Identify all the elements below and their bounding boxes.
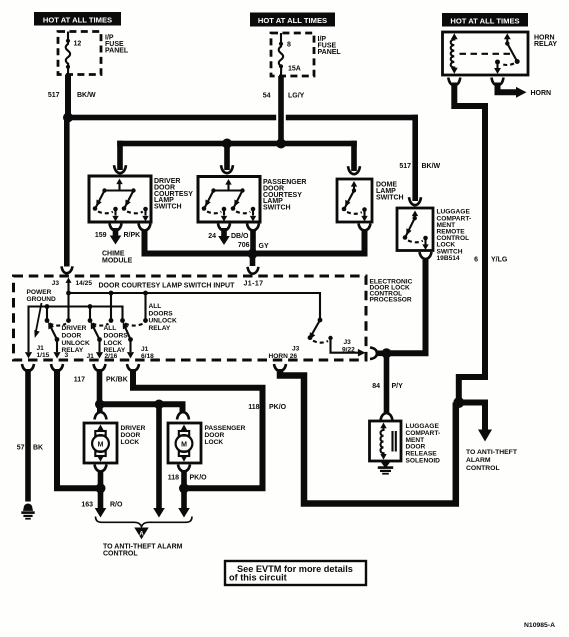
svg-text:M: M — [98, 442, 104, 449]
coil arrows — [451, 33, 458, 39]
node: anti-theft / horn junction — [453, 397, 464, 408]
svg-text:8: 8 — [287, 41, 291, 48]
relay K2 contacts (all doors lock) — [88, 318, 93, 323]
connector at dome lamp switch input — [348, 166, 360, 174]
svg-text:54: 54 — [263, 92, 271, 99]
driver courtesy switch internals — [93, 179, 149, 222]
label DOME LAMP SWITCH — [376, 181, 404, 201]
node: 517 bus junction — [63, 113, 73, 123]
svg-text:DOOR COURTESY LAMP SWITCH INPU: DOOR COURTESY LAMP SWITCH INPUT — [99, 283, 236, 290]
svg-text:24: 24 — [208, 233, 216, 240]
node: driver lock bottom junction — [96, 483, 106, 493]
pin arrows at bottom edge — [25, 352, 32, 358]
label PASSENGER DOOR COURTESY LAMP SWITCH — [263, 179, 306, 212]
label I/P FUSE PANEL (middle) — [318, 36, 342, 56]
wire 517 continues down to processor — [64, 118, 70, 267]
svg-text:J3: J3 — [344, 339, 352, 346]
wire 118 PK/O: down, right, down, left to passenger lock bottom — [133, 369, 263, 488]
svg-text:J1: J1 — [141, 346, 149, 353]
wire 57 BK to ground — [25, 369, 31, 502]
svg-text:517: 517 — [48, 92, 60, 99]
svg-text:ALARM: ALARM — [466, 457, 491, 464]
connector below pin J1 6/18 — [127, 364, 139, 371]
wire pin 3 down and right to driver lock bottom — [57, 369, 97, 488]
connector above solenoid — [381, 413, 393, 421]
svg-text:J1: J1 — [37, 345, 45, 352]
connector below horn relay (horn side) — [492, 78, 504, 86]
power tag HOT AT ALL TIMES (middle) — [250, 13, 335, 27]
relay K1 blade and pin 3 — [55, 337, 60, 342]
label POWER GROUND — [27, 289, 57, 303]
wire bus A corner down to luggage remote switch — [412, 115, 418, 201]
svg-text:PK/O: PK/O — [269, 404, 287, 411]
svg-text:SWITCH: SWITCH — [376, 195, 404, 202]
svg-text:R/PK: R/PK — [124, 232, 141, 239]
svg-text:84: 84 — [372, 383, 380, 390]
wire 163 R/O arrow to anti-theft — [98, 488, 104, 508]
relay K1 contacts (driver door unlock) — [45, 318, 50, 323]
connector at processor J3 14/25 input — [62, 266, 73, 273]
svg-text:J3: J3 — [292, 345, 300, 352]
svg-text:J1: J1 — [87, 353, 95, 360]
fuse 12 — [66, 32, 82, 75]
connector below dome lamp switch — [359, 224, 371, 231]
power tag HOT AT ALL TIMES (right) — [442, 13, 528, 27]
luggage compartment door release solenoid box — [370, 421, 402, 461]
svg-text:J1-17: J1-17 — [244, 281, 264, 288]
svg-text:DOORS: DOORS — [104, 333, 129, 340]
svg-text:CONTROL: CONTROL — [103, 551, 138, 558]
svg-text:R/O: R/O — [110, 501, 123, 508]
svg-text:706: 706 — [238, 242, 250, 249]
node: solenoid feed junction — [382, 348, 392, 358]
label ELECTRONIC DOOR LOCK CONTROL PROCESSOR — [370, 279, 413, 304]
connector below pin J1 1/15 — [22, 364, 34, 371]
wire driver switch to courtesy output bus — [145, 230, 365, 254]
connector at J3 9/22 output (right edge) — [370, 348, 377, 360]
relay K2 blade and pin 2/16 — [97, 337, 102, 342]
connector above passenger door lock — [177, 412, 189, 420]
svg-text:HOT AT ALL TIMES: HOT AT ALL TIMES — [43, 15, 112, 24]
svg-text:DB/O: DB/O — [231, 233, 249, 240]
svg-text:DRIVER: DRIVER — [62, 325, 87, 332]
wire to anti-theft arrow — [459, 403, 485, 431]
dome lamp switch box — [337, 179, 372, 222]
wire drop to passenger switch — [224, 144, 230, 171]
svg-text:SOLENOID: SOLENOID — [406, 458, 441, 465]
label HORN RELAY — [534, 35, 557, 49]
wire up to driver lock bottom connector — [98, 471, 104, 488]
svg-text:19B514: 19B514 — [437, 255, 460, 262]
note box: See EVTM for more details of this circuit — [225, 561, 366, 585]
wire bus A (517 feed to luggage switch) — [68, 115, 418, 121]
label DRIVER DOOR COURTESY LAMP SWITCH — [154, 178, 193, 211]
pin J3 14/25 arrow — [66, 278, 72, 283]
connector below passenger door lock — [178, 465, 190, 472]
wire 117 PK/BK down — [97, 369, 103, 405]
wire bus B (courtesy lamp feed) — [117, 141, 357, 147]
svg-text:118: 118 — [248, 404, 259, 411]
dome lamp switch internals — [342, 181, 368, 222]
svg-text:BK/W: BK/W — [77, 92, 96, 99]
svg-text:ALL: ALL — [104, 325, 117, 332]
label J3 HORN 26 — [269, 345, 300, 360]
svg-text:MODULE: MODULE — [102, 257, 133, 264]
svg-text:ALL: ALL — [149, 303, 162, 310]
wire down to driver lock top connector — [97, 404, 103, 413]
svg-text:LOCK: LOCK — [104, 340, 123, 347]
svg-text:DOORS: DOORS — [149, 310, 174, 317]
svg-text:57: 57 — [17, 444, 25, 451]
wire bus B drop to dome lamp switch — [351, 141, 357, 171]
connector below pin 3 — [51, 364, 63, 371]
svg-text:P/Y: P/Y — [392, 383, 404, 390]
svg-text:6: 6 — [474, 256, 478, 263]
wire to HORN: down, right, arrow — [498, 83, 517, 93]
fuse 8 15A — [279, 33, 301, 76]
label 118 PK/O (passenger bottom) — [168, 475, 207, 482]
svg-text:of this circuit: of this circuit — [229, 573, 287, 583]
svg-text:RELAY: RELAY — [149, 325, 171, 332]
wire up to passenger lock bottom connector — [181, 471, 187, 488]
connector below driver door lock — [95, 465, 107, 472]
svg-text:PK/O: PK/O — [190, 475, 208, 482]
node: 54 joins courtesy bus B — [276, 139, 286, 149]
relay K3 contacts (all doors unlock) — [120, 318, 125, 323]
wire 517 BK/W from left fuse — [65, 75, 71, 120]
svg-text:PANEL: PANEL — [105, 48, 129, 55]
brace for anti-theft arrows — [96, 517, 193, 527]
svg-text:M: M — [181, 442, 187, 449]
wire luggage remote switch down to junction — [389, 258, 426, 353]
wire J3 9/22 to junction — [376, 351, 387, 357]
wire anti-theft tap down arrow — [156, 404, 162, 508]
pin labels — [37, 345, 155, 360]
connector below driver switch (chime output) — [110, 224, 122, 231]
label I/P FUSE PANEL (left) — [105, 34, 129, 54]
luggage compartment remote control lock switch box — [397, 208, 433, 251]
ground G2 below solenoid — [378, 461, 393, 475]
connector at J3 HORN 26 — [274, 364, 286, 371]
label LUGGAGE COMPARTMENT DOOR RELEASE SOLENOID — [406, 423, 441, 465]
power ground pointer arrow — [36, 303, 42, 331]
wire HORN 26: down, right, down, right along bottom, up to junction — [280, 369, 456, 504]
svg-text:BK/W: BK/W — [422, 163, 441, 170]
svg-text:HOT AT ALL TIMES: HOT AT ALL TIMES — [258, 16, 327, 25]
connector above driver door lock — [95, 412, 107, 420]
connector at driver courtesy switch input — [114, 165, 126, 173]
relay K3 blade and pin 6/18 — [128, 337, 133, 342]
svg-text:BK: BK — [33, 444, 43, 451]
svg-text:RELAY: RELAY — [62, 347, 84, 354]
label 706 GY — [238, 242, 269, 250]
label 517 BK/W — [48, 92, 96, 99]
label 54 LG/Y — [263, 92, 305, 99]
label CHIME MODULE — [102, 251, 133, 265]
power tag HOT AT ALL TIMES (left) — [34, 12, 121, 26]
svg-text:GROUND: GROUND — [27, 296, 57, 303]
svg-text:J3: J3 — [52, 280, 60, 287]
svg-text:SWITCH: SWITCH — [263, 205, 291, 212]
wire bus B drop to driver door switch — [117, 141, 123, 170]
wire 118 arrow to anti-theft — [181, 488, 187, 508]
horn relay coil — [451, 37, 455, 71]
svg-text:A: A — [139, 530, 144, 537]
wire 706 GY down to bus — [250, 230, 256, 254]
passenger door lock motor — [176, 425, 193, 462]
svg-text:12: 12 — [74, 41, 82, 48]
svg-text:9/22: 9/22 — [342, 346, 355, 353]
svg-text:159: 159 — [95, 232, 107, 239]
wire 54 LG/Y from middle fuse — [278, 76, 284, 141]
svg-text:6/18: 6/18 — [141, 353, 154, 360]
wire 24 DB/O arrow — [221, 228, 227, 238]
svg-text:DOOR: DOOR — [62, 333, 82, 340]
courtesy input rail (line 1) — [69, 293, 321, 318]
relay K4 (horn / 9-22 output) — [318, 318, 323, 323]
passenger courtesy switch internals — [202, 179, 257, 222]
passenger door courtesy lamp switch box — [198, 177, 260, 223]
label DRIVER DOOR UNLOCK RELAY — [62, 325, 90, 354]
contact drop to relay 3 — [144, 293, 146, 321]
svg-text:HORN 26: HORN 26 — [269, 353, 298, 360]
driver door courtesy lamp switch box — [89, 176, 151, 222]
node: bus B to passenger switch — [222, 139, 232, 149]
connector at passenger courtesy switch input — [221, 165, 233, 173]
electronic door lock control processor box (dashed) — [14, 276, 367, 360]
svg-text:LOCK: LOCK — [205, 439, 224, 446]
ground G1 — [21, 504, 34, 520]
label ALL DOORS UNLOCK RELAY — [149, 303, 177, 332]
label ALL DOORS LOCK RELAY — [104, 325, 129, 354]
connector below luggage remote switch — [420, 252, 432, 259]
I/P fuse panel box (middle, dashed) — [271, 33, 314, 76]
svg-text:1/15: 1/15 — [37, 352, 50, 359]
wire 84 P/Y down to solenoid — [384, 353, 390, 413]
svg-text:163: 163 — [81, 501, 93, 508]
connector below passenger switch (706 GY) — [247, 224, 259, 231]
wire feed rail to passenger lock — [100, 404, 183, 412]
luggage remote switch internals — [403, 211, 429, 251]
svg-text:GY: GY — [259, 243, 269, 250]
contact drop from 14/25 — [67, 293, 69, 321]
connector at J1-17 — [248, 267, 259, 274]
label PASSENGER DOOR LOCK — [205, 425, 246, 446]
marker A triangle — [134, 528, 148, 540]
label TO ANTI-THEFT ALARM CONTROL (bottom) — [103, 544, 183, 558]
svg-text:117: 117 — [74, 377, 85, 384]
connector below passenger switch (24 DB/O) — [218, 224, 230, 231]
horn relay switch — [494, 33, 520, 74]
label TO ANTI-THEFT ALARM CONTROL (right) — [466, 449, 518, 472]
svg-text:CONTROL: CONTROL — [466, 465, 500, 472]
driver door lock motor — [92, 425, 109, 462]
svg-text:UNLOCK: UNLOCK — [62, 340, 90, 347]
wire down to processor J1-17 — [250, 254, 256, 266]
svg-text:SWITCH: SWITCH — [154, 204, 182, 211]
svg-text:LG/Y: LG/Y — [288, 92, 305, 99]
label 6 Y/LG — [474, 256, 508, 263]
label DRIVER DOOR LOCK — [121, 425, 146, 446]
wire 159 R/PK arrow to chime module — [113, 228, 119, 237]
ground rail (line 2) — [29, 307, 123, 353]
svg-text:RELAY: RELAY — [104, 347, 126, 354]
crossover gap of wire 54 over bus A — [276, 114, 286, 122]
svg-text:118: 118 — [168, 475, 179, 482]
label LUGGAGE COMPARTMENT REMOTE CONTROL LOCK SWITCH 19B514 — [437, 209, 472, 262]
svg-text:HORN: HORN — [531, 90, 552, 97]
svg-text:RELAY: RELAY — [534, 41, 557, 48]
svg-text:Y/LG: Y/LG — [491, 256, 508, 263]
node: lock motor feed junction — [95, 400, 105, 410]
connector below driver switch (right output) — [139, 224, 151, 231]
svg-text:UNLOCK: UNLOCK — [149, 318, 177, 325]
relay link (dashed) — [460, 53, 511, 55]
svg-text:LOCK: LOCK — [121, 439, 140, 446]
connector below horn relay (coil side) — [448, 78, 460, 86]
solenoid coil and core — [380, 423, 396, 460]
node dots on line 1 — [66, 291, 71, 296]
svg-text:15A: 15A — [288, 66, 301, 73]
svg-text:HOT AT ALL TIMES: HOT AT ALL TIMES — [450, 16, 519, 25]
passenger door lock motor box — [168, 423, 201, 463]
svg-text:PROCESSOR: PROCESSOR — [370, 296, 412, 303]
contact drop to relay 2 — [110, 293, 112, 321]
arrow to HORN — [516, 87, 527, 98]
node: passenger lock bottom junction — [179, 483, 189, 493]
horn relay U-HR box — [443, 32, 529, 75]
connector below pin J1 2/16 — [94, 364, 106, 371]
driver door lock motor box — [84, 423, 117, 463]
label 517 BK/W (luggage feed) — [399, 163, 440, 170]
svg-text:PK/BK: PK/BK — [106, 377, 128, 384]
node dots on line 2 — [45, 304, 50, 309]
wire to J3 9/22 with arrow — [331, 338, 359, 353]
svg-text:14/25: 14/25 — [76, 280, 93, 287]
svg-text:517: 517 — [399, 163, 411, 170]
contact drops from line 2 — [47, 307, 90, 321]
connector at luggage remote switch input — [409, 197, 421, 205]
I/P fuse panel box (left, dashed) — [58, 32, 101, 75]
wire horn relay coil to Y/LG run: down, right, down — [454, 83, 485, 401]
node: courtesy output bus junction — [248, 249, 258, 259]
svg-text:TO ANTI-THEFT: TO ANTI-THEFT — [466, 449, 518, 456]
node: anti-theft tap junction — [154, 400, 164, 410]
svg-text:PANEL: PANEL — [318, 49, 342, 56]
svg-text:N10985-A: N10985-A — [524, 622, 555, 629]
